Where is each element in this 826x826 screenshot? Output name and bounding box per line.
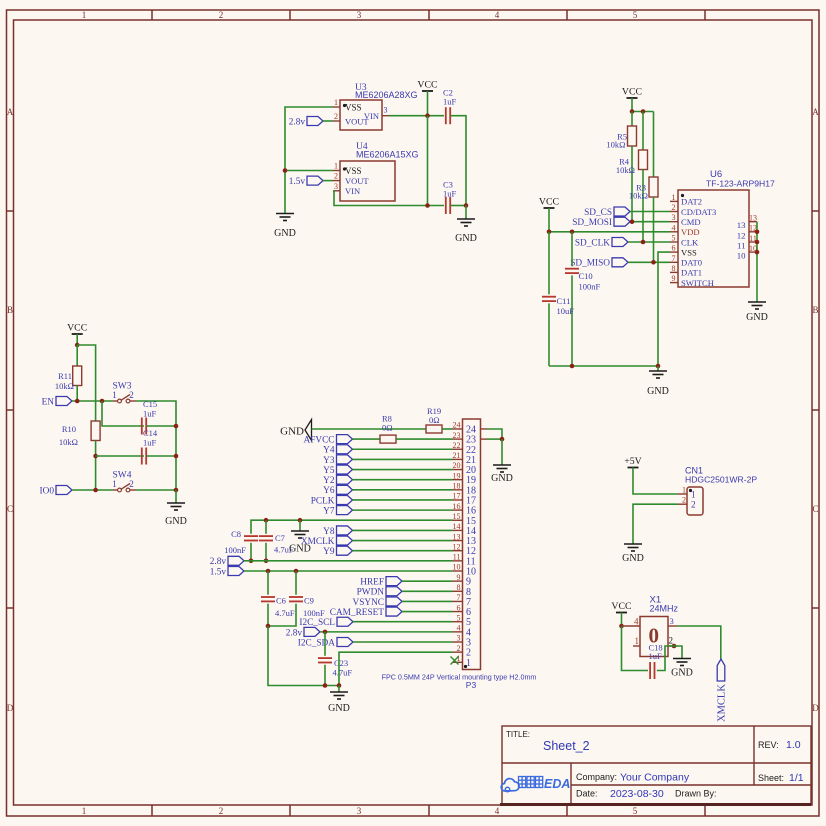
svg-text:2: 2 <box>219 10 224 20</box>
svg-text:2: 2 <box>334 112 338 121</box>
svg-text:GND: GND <box>671 668 693 679</box>
U4 pin 3 VIN <box>333 190 340 192</box>
svg-text:C: C <box>812 504 818 514</box>
wire C9 down <box>268 604 296 626</box>
svg-text:C7: C7 <box>275 533 285 543</box>
P3 pin 20 <box>453 469 463 471</box>
svg-text:FPC 0.5MM 24P Vertical mountin: FPC 0.5MM 24P Vertical mounting type H2.… <box>382 673 537 682</box>
capacitor C11 10uF <box>548 232 550 294</box>
svg-text:10kΩ: 10kΩ <box>616 165 635 175</box>
net flag XMCLK (vertical) <box>717 659 725 681</box>
svg-text:3: 3 <box>357 806 362 816</box>
junction C7 top <box>264 518 269 523</box>
wire I2C_SCL to pin5 <box>353 621 453 623</box>
svg-text:VCC: VCC <box>611 601 631 612</box>
svg-text:1.5v: 1.5v <box>210 567 227 577</box>
wire VDD row to U6 pin4 <box>549 231 670 233</box>
svg-text:10: 10 <box>453 563 461 572</box>
connector CN1 HDGC2501WR-2P <box>687 487 703 515</box>
svg-text:9: 9 <box>672 274 676 283</box>
wire to R4 <box>642 112 644 151</box>
svg-text:6: 6 <box>466 607 471 618</box>
svg-text:8: 8 <box>457 583 461 592</box>
wire SD_MOSI to pin3 <box>630 221 670 223</box>
U3 pin 2 VOUT <box>333 120 340 122</box>
wire C11 down <box>548 303 550 366</box>
net flag AFVCC <box>337 435 353 444</box>
junction C14/gnd rail <box>174 454 179 459</box>
svg-text:1: 1 <box>334 98 338 107</box>
svg-text:23: 23 <box>453 431 461 440</box>
svg-text:VSS: VSS <box>345 103 362 113</box>
junction gnd branch <box>298 518 303 523</box>
svg-text:5: 5 <box>633 10 638 20</box>
net flag Y9 <box>337 546 353 555</box>
wire gnd flag to R19 <box>312 428 427 430</box>
svg-text:VCC: VCC <box>539 197 559 208</box>
net flag Y5 <box>337 465 353 474</box>
wire C14 row <box>96 455 144 457</box>
wire VCC branch to R10 column <box>77 345 95 421</box>
junction EN/C15 branch <box>100 399 105 404</box>
svg-text:GND: GND <box>328 703 350 714</box>
X1 pin 3 <box>668 625 677 627</box>
net flag IO0 <box>56 486 72 495</box>
U6 pin 9 SWITCH <box>670 282 678 284</box>
svg-text:24: 24 <box>453 421 461 430</box>
wire CN1 pin2 to gnd <box>633 504 678 544</box>
wire R5 to CMD row <box>631 146 633 222</box>
P3 pin 18 <box>453 489 463 491</box>
ground (right of C3) <box>457 218 475 220</box>
wire SD_CLK to pin5 <box>628 241 670 243</box>
svg-text:4.7uF: 4.7uF <box>333 668 353 678</box>
svg-text:3: 3 <box>670 616 674 626</box>
svg-text:Y6: Y6 <box>323 486 335 496</box>
resistor R10 10k <box>91 421 100 441</box>
wire 2.8v to U3 pin2 <box>323 120 333 122</box>
junction C6 top <box>266 569 271 574</box>
P3 pin 8 <box>453 590 463 592</box>
X1 pin 1 <box>633 645 640 647</box>
svg-text:10kΩ: 10kΩ <box>55 381 74 391</box>
net flag Y2 <box>337 475 353 484</box>
wire pin2 to gnd rail <box>339 652 453 685</box>
ground (P3 right) <box>493 464 511 466</box>
U6 pin 1 DAT2 <box>670 200 678 202</box>
svg-text:9: 9 <box>457 573 461 582</box>
svg-text:R11: R11 <box>58 371 72 381</box>
svg-text:P3: P3 <box>466 680 477 690</box>
svg-text:2023-08-30: 2023-08-30 <box>610 788 664 800</box>
svg-text:Your Company: Your Company <box>620 772 690 784</box>
wire gnd stem <box>501 439 503 465</box>
P3 pin 5 <box>453 621 463 623</box>
net flag 2.8v (pin4) <box>304 627 320 636</box>
svg-text:100nF: 100nF <box>579 282 601 292</box>
wire R19 to pin24 <box>442 428 453 430</box>
net flag Y4 <box>337 445 353 454</box>
svg-text:EN: EN <box>42 397 55 407</box>
svg-text:4.7uF: 4.7uF <box>275 608 295 618</box>
wire C14 right <box>147 455 177 457</box>
svg-text:Y5: Y5 <box>323 466 335 476</box>
svg-text:1uF: 1uF <box>443 189 457 199</box>
svg-text:IO0: IO0 <box>40 486 55 496</box>
svg-text:VDD: VDD <box>681 227 700 237</box>
svg-text:SD_MOSI: SD_MOSI <box>572 218 612 228</box>
svg-text:13: 13 <box>737 220 746 230</box>
U6 pin 10 <box>749 251 757 253</box>
junction R5 top <box>630 109 635 114</box>
wire C3 to right <box>451 205 467 207</box>
junction pin23/24 gnd <box>500 437 505 442</box>
svg-text:1/1: 1/1 <box>789 772 804 784</box>
svg-text:C6: C6 <box>276 596 286 606</box>
svg-text:DAT2: DAT2 <box>681 197 702 207</box>
net flag XMCLK <box>337 536 353 545</box>
svg-text:11: 11 <box>466 556 476 567</box>
U6 pin 3 CMD <box>670 221 678 223</box>
P3 pin 13 <box>453 540 463 542</box>
svg-text:GND: GND <box>622 553 644 564</box>
P3 pin 17 <box>453 499 463 501</box>
svg-text:5: 5 <box>633 806 638 816</box>
wire VCC to VIN node <box>427 91 429 116</box>
svg-text:22: 22 <box>466 445 476 456</box>
wire SW3 pin2 to gnd rail <box>136 401 176 490</box>
svg-text:6: 6 <box>672 244 676 253</box>
wire C2 right down to C3 <box>451 116 467 206</box>
wire VCC to R11 <box>76 345 78 366</box>
svg-text:4: 4 <box>634 617 639 627</box>
wire C18 to pin2 <box>657 646 674 671</box>
wire U3 pin1 to GND rail <box>285 107 333 213</box>
svg-text:4: 4 <box>495 806 500 816</box>
svg-text:3: 3 <box>672 213 676 222</box>
resistor R8 0ohm <box>380 435 396 443</box>
capacitor C15 1uF <box>141 418 143 435</box>
svg-text:2: 2 <box>219 806 224 816</box>
junction EN/R11 <box>75 399 80 404</box>
svg-text:VCC: VCC <box>67 323 87 334</box>
wire to right ground <box>465 206 467 220</box>
P3 pin 9 <box>453 580 463 582</box>
svg-text:16: 16 <box>466 506 476 517</box>
capacitor C14 1uF <box>141 448 143 465</box>
svg-text:C14: C14 <box>143 428 158 438</box>
junction C3 right <box>464 203 469 208</box>
P3 pin 19 <box>453 479 463 481</box>
svg-text:VIN: VIN <box>364 111 379 121</box>
svg-text:17: 17 <box>466 495 476 506</box>
svg-text:2: 2 <box>466 648 471 659</box>
svg-text:1: 1 <box>82 806 87 816</box>
svg-text:10kΩ: 10kΩ <box>606 140 625 150</box>
wire Y2 to pin19 <box>353 479 453 481</box>
svg-text:1.0: 1.0 <box>786 739 801 751</box>
svg-text:+5V: +5V <box>624 456 642 467</box>
svg-text:100nF: 100nF <box>224 545 246 555</box>
resistor R11 10k <box>73 366 82 386</box>
svg-text:GND: GND <box>491 473 513 484</box>
svg-text:3: 3 <box>334 182 338 191</box>
ground (left of U3/U4) <box>276 213 294 215</box>
no-connect X on pin 1 <box>451 657 459 665</box>
wire U3 pin3 to VCC node and C2 <box>389 115 444 117</box>
junction C6 bottom <box>266 624 271 629</box>
svg-text:23: 23 <box>466 435 476 446</box>
svg-text:Y9: Y9 <box>323 547 335 557</box>
svg-text:5: 5 <box>466 617 471 628</box>
wire Y8 to pin14 <box>353 529 453 531</box>
wire 2.8v to pin4 <box>320 631 453 633</box>
svg-text:17: 17 <box>453 492 461 501</box>
resistor R19 0ohm <box>426 425 442 433</box>
wire Y3 to pin21 <box>353 458 453 460</box>
wire C23 down <box>324 665 326 686</box>
ground (X1) <box>673 658 691 660</box>
wire VSS pin6 to ground rail <box>658 252 670 366</box>
U4 pin 2 VOUT <box>333 180 340 182</box>
svg-text:19: 19 <box>466 475 476 486</box>
svg-text:24: 24 <box>466 424 476 435</box>
junction gnd rail bottom <box>174 488 179 493</box>
svg-text:15: 15 <box>466 516 476 527</box>
svg-text:4: 4 <box>495 10 500 20</box>
wire U6 right pins tie <box>756 222 758 302</box>
svg-text:EDA: EDA <box>544 777 570 791</box>
P3 pin 24 right stub <box>481 428 488 430</box>
wire SW4 pin2 to gnd <box>136 489 176 491</box>
svg-text:Y3: Y3 <box>323 456 335 466</box>
svg-text:Sheet:: Sheet: <box>758 773 784 783</box>
wire +5V to CN1 pin1 <box>633 468 678 495</box>
capacitor C10 100nF <box>571 232 573 266</box>
wire C18 loop <box>622 626 649 671</box>
P3 pin 4 <box>453 631 463 633</box>
U6 pin 7 DAT0 <box>670 261 678 263</box>
P3 pin 15 <box>453 519 463 521</box>
svg-text:1uF: 1uF <box>649 651 663 661</box>
net flag SD_CLK <box>612 238 628 247</box>
svg-text:CLK: CLK <box>681 237 699 247</box>
wire C10 down <box>571 275 573 366</box>
svg-text:C10: C10 <box>579 271 593 281</box>
junction C10/gnd rail <box>570 364 575 369</box>
svg-text:Y7: Y7 <box>323 507 335 517</box>
svg-text:12: 12 <box>453 542 461 551</box>
svg-text:11: 11 <box>737 241 745 251</box>
svg-text:20: 20 <box>466 465 476 476</box>
svg-text:C15: C15 <box>143 399 157 409</box>
wire gnd branch <box>299 520 301 531</box>
svg-text:VSS: VSS <box>345 166 362 176</box>
wire EN row <box>72 400 113 402</box>
svg-text:CAM_RESET: CAM_RESET <box>330 608 385 618</box>
U6 pin 4 VDD <box>670 231 678 233</box>
svg-text:10: 10 <box>737 251 746 261</box>
junction C9 top <box>294 569 299 574</box>
svg-text:100nF: 100nF <box>303 608 325 618</box>
svg-text:8: 8 <box>672 264 676 273</box>
wire C7 down <box>265 543 267 561</box>
junction gnd rail <box>337 683 342 688</box>
svg-text:AFVCC: AFVCC <box>303 436 334 446</box>
svg-text:10kΩ: 10kΩ <box>59 437 78 447</box>
P3 pin 6 <box>453 611 463 613</box>
svg-text:2.8v: 2.8v <box>286 628 303 638</box>
U3 pin 1 VSS <box>333 106 340 108</box>
net flag PWDN <box>386 587 402 596</box>
svg-text:VCC: VCC <box>622 87 642 98</box>
svg-text:TITLE:: TITLE: <box>506 730 530 739</box>
net flag 2.8v (U3 VOUT) <box>307 117 323 126</box>
wire PWDN to pin8 <box>402 590 453 592</box>
svg-text:3: 3 <box>466 638 471 649</box>
svg-text:7: 7 <box>672 254 676 263</box>
svg-text:18: 18 <box>466 485 476 496</box>
svg-text:CD/DAT3: CD/DAT3 <box>681 207 716 217</box>
junction pin10 <box>755 250 760 255</box>
wire SD_CS to pin2 <box>630 211 670 213</box>
junction pin11 <box>755 240 760 245</box>
P3 pin 12 <box>453 550 463 552</box>
CN1 pin 1 <box>678 493 687 495</box>
svg-text:14: 14 <box>466 526 476 537</box>
svg-text:HREF: HREF <box>360 578 384 588</box>
svg-text:HDGC2501WR-2P: HDGC2501WR-2P <box>685 475 757 485</box>
svg-text:B: B <box>7 305 13 315</box>
resistor R3 10k <box>649 177 658 197</box>
junction R4/CLK <box>641 240 646 245</box>
svg-text:2: 2 <box>669 636 674 646</box>
svg-text:DAT1: DAT1 <box>681 268 702 278</box>
svg-text:13: 13 <box>466 536 476 547</box>
junction VCC branch <box>75 343 80 348</box>
svg-text:4: 4 <box>457 624 461 633</box>
capacitor C8 100nF <box>244 535 258 537</box>
wire VCC to pin4 <box>621 613 623 627</box>
svg-text:7: 7 <box>466 597 471 608</box>
svg-text:CMD: CMD <box>681 217 701 227</box>
svg-text:1uF: 1uF <box>143 438 157 448</box>
svg-text:C: C <box>7 504 13 514</box>
svg-text:TF-123-ARP9H17: TF-123-ARP9H17 <box>706 179 775 189</box>
net flag Y6 <box>337 485 353 494</box>
wire VCC rail down <box>427 116 429 206</box>
CN1 pin 2 <box>678 503 687 505</box>
junction IO0/R10 <box>93 488 98 493</box>
capacitor C7 4.7uF <box>265 520 267 534</box>
wire 2.8v row to pin11 <box>244 560 453 562</box>
junction VDD/C11 <box>547 230 552 235</box>
wire pin15 to caps <box>251 520 453 534</box>
wire SD_MISO to pin7 <box>628 261 670 263</box>
svg-text:1: 1 <box>672 193 676 202</box>
svg-text:GND: GND <box>455 233 477 244</box>
P3 pin 3 <box>453 641 463 643</box>
wire R10 bottom to IO0 <box>95 441 97 491</box>
U3 pin 3 VIN <box>382 115 389 117</box>
resistor R4 10k <box>639 150 648 170</box>
P3 pin 1 <box>453 661 463 663</box>
svg-text:VOUT: VOUT <box>345 176 369 186</box>
wire VCC down <box>76 334 78 345</box>
junction VIN/VCC <box>425 113 430 118</box>
svg-text:GND: GND <box>280 426 304 438</box>
wire R11 to EN node <box>76 386 78 402</box>
P3 pin 16 <box>453 509 463 511</box>
svg-text:VSYNC: VSYNC <box>352 598 384 608</box>
title block <box>502 726 811 804</box>
net flag EN <box>56 397 72 406</box>
net flag I2C_SCL <box>337 617 353 626</box>
wire R4 to CLK row <box>642 170 644 243</box>
svg-text:Y8: Y8 <box>323 527 335 537</box>
P3 pin 11 <box>453 560 463 562</box>
junction VCC rail bottom <box>425 203 430 208</box>
capacitor C23 4.7uF <box>324 632 326 656</box>
svg-text:4: 4 <box>466 627 471 638</box>
svg-text:5: 5 <box>457 613 461 622</box>
svg-text:ME6206A15XG: ME6206A15XG <box>356 150 419 160</box>
capacitor C3 1uF <box>445 197 447 214</box>
ground (SD section) <box>649 370 667 372</box>
svg-text:1: 1 <box>635 636 640 646</box>
junction C15/gnd rail <box>174 424 179 429</box>
junction R10/C14 <box>93 454 98 459</box>
wire to R5 <box>631 112 633 127</box>
wire C6 down <box>267 604 269 626</box>
svg-text:DAT0: DAT0 <box>681 258 702 268</box>
svg-text:VCC: VCC <box>417 80 437 91</box>
wire U4 pin3 loop to C3 <box>333 191 444 206</box>
svg-text:12: 12 <box>737 230 746 240</box>
wire gnd stem <box>175 490 177 503</box>
wire VCC to pullup rail <box>631 98 633 112</box>
svg-text:10: 10 <box>466 566 476 577</box>
net flag 1.5v (pin10) <box>228 567 244 576</box>
capacitor C6 4.7uF <box>267 571 269 595</box>
wire pullup rail <box>632 111 654 113</box>
svg-text:1uF: 1uF <box>143 409 157 419</box>
svg-text:Y4: Y4 <box>323 446 335 456</box>
junction R4 top <box>641 109 646 114</box>
wire 1.5v to U4 pin2 <box>323 180 333 182</box>
svg-text:19: 19 <box>453 471 461 480</box>
svg-text:XMCLK: XMCLK <box>717 684 728 722</box>
P3 pin 23 right stub <box>481 438 488 440</box>
ground (switch section) <box>167 502 185 504</box>
svg-text:R10: R10 <box>62 424 76 434</box>
U6 pin 5 CLK <box>670 241 678 243</box>
svg-text:21: 21 <box>453 451 461 460</box>
ground (U6 right) <box>748 301 766 303</box>
svg-text:SD_CLK: SD_CLK <box>575 238 610 248</box>
svg-text:21: 21 <box>466 455 476 466</box>
U6 pin 6 VSS <box>670 251 678 253</box>
svg-text:Company:: Company: <box>576 772 617 782</box>
ground (CN1) <box>624 543 642 545</box>
svg-text:SD_CS: SD_CS <box>584 208 612 218</box>
junction pin12 <box>755 230 760 235</box>
svg-text:GND: GND <box>746 312 768 323</box>
svg-text:1: 1 <box>82 10 87 20</box>
wire Y6 to pin18 <box>353 489 453 491</box>
svg-text:8: 8 <box>466 587 471 598</box>
svg-text:SD_MISO: SD_MISO <box>570 259 610 269</box>
